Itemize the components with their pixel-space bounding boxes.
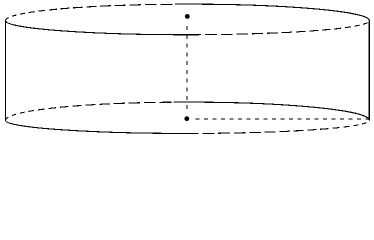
center axis dashed line xyxy=(186,26,188,113)
cylinder diagram xyxy=(0,0,374,140)
bottom ellipse front edge, dashed right part xyxy=(202,120,369,133)
bottom ellipse back edge, solid right part xyxy=(174,102,370,120)
top center dot xyxy=(185,14,190,19)
right side line of cylinder xyxy=(368,21,370,120)
top ellipse front edge, dashed right part xyxy=(205,23,367,35)
bottom center dot xyxy=(184,116,189,121)
top ellipse back edge, solid right part xyxy=(175,4,370,20)
left side line of cylinder xyxy=(5,21,7,122)
top ellipse back edge, dashed hidden left part xyxy=(6,4,173,20)
bottom ellipse front edge, solid left part xyxy=(5,120,198,133)
radius dashed line xyxy=(196,118,370,120)
top ellipse front edge, solid left part xyxy=(5,21,201,35)
bottom ellipse back edge, dashed hidden left part xyxy=(6,102,172,120)
